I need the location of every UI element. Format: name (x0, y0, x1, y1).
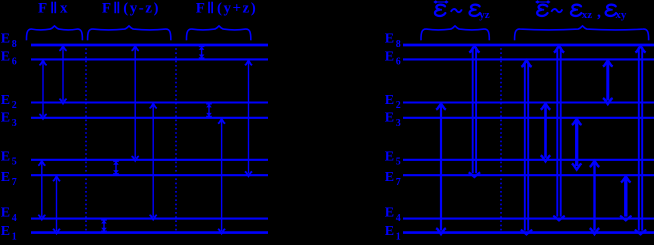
svg-text:,: , (597, 4, 601, 21)
level line E8 (left) (31, 44, 268, 47)
svg-text:xy: xy (615, 9, 627, 21)
transition arrow E2-E5 (E_xz,E_xy) (544, 105, 547, 158)
svg-text:E: E (385, 150, 394, 165)
dotted separator left 1 (85, 44, 87, 234)
level line E2 (right) (403, 101, 654, 103)
transition arrow E4-E1 (F||y-z) (103, 220, 105, 232)
svg-text:E: E (385, 93, 394, 108)
transition arrow E2-E4 (F||y-z) (152, 104, 154, 217)
svg-text:F: F (102, 1, 111, 17)
svg-text:3: 3 (396, 118, 401, 129)
level line E1 (right) (403, 231, 654, 234)
transition arrow E6-E7 (F||y+z) (248, 61, 250, 174)
level line E7 (left) (31, 174, 268, 176)
svg-text:F: F (38, 1, 47, 17)
double transition arrow E8-E4 (E_xz,E_xy) (556, 47, 558, 217)
brace over F||x group (26, 26, 82, 40)
svg-text:E: E (1, 206, 10, 221)
transition arrow E8-E6 (F||y+z) (201, 46, 203, 59)
level line E4 (right) (403, 218, 654, 220)
level line E3 (left) (31, 117, 268, 119)
svg-text:E: E (385, 170, 394, 185)
svg-text:1: 1 (396, 231, 401, 242)
transition arrow E5-E1 (E_xz,E_xy) (593, 162, 595, 231)
level line E8 (right) (403, 44, 654, 47)
svg-text:E: E (1, 170, 10, 185)
svg-text:E: E (1, 224, 10, 239)
transition arrow E2-E1 (E_yz) (440, 105, 442, 231)
svg-text:E: E (385, 111, 394, 126)
svg-text:yz: yz (479, 9, 490, 21)
brace over E_xz,E_xy group (515, 26, 649, 40)
svg-text:2: 2 (12, 100, 17, 111)
dotted separator right (500, 44, 502, 234)
transition arrow E5-E7 (F||y-z) (115, 161, 117, 175)
svg-text:8: 8 (12, 39, 17, 50)
level line E3 (right) (403, 117, 654, 119)
level line E2 (left) (31, 101, 268, 103)
svg-text:E: E (385, 49, 394, 64)
svg-text:E: E (385, 32, 394, 47)
svg-text:E: E (385, 224, 394, 239)
svg-text:(y+z): (y+z) (217, 1, 257, 17)
transition arrow E6-E2 (E_xz,E_xy) (606, 61, 609, 100)
svg-text:1: 1 (12, 231, 17, 242)
double transition arrow E8-E1 (E_xz,E_xy) (638, 47, 640, 231)
svg-text:2: 2 (396, 100, 401, 111)
dotted separator left 2 (175, 44, 177, 234)
svg-text:7: 7 (396, 177, 401, 188)
level line E7 (right) (403, 174, 654, 176)
transition arrow E3-E5 (E_xz,E_xy) (575, 120, 578, 166)
svg-text:5: 5 (396, 157, 401, 168)
brace over E_yz group (421, 26, 489, 40)
transition arrow E5-E4 (F||x) (41, 161, 43, 217)
svg-text:8: 8 (396, 39, 401, 50)
transition arrow E8-E2 (F||x) (62, 47, 64, 102)
brace over F||(y+z) group (186, 26, 250, 40)
svg-text:(y-z): (y-z) (123, 1, 160, 17)
double transition arrow E8-E7 (E_yz) (472, 47, 474, 173)
svg-text:E: E (1, 150, 10, 165)
svg-text:xz: xz (582, 9, 593, 21)
svg-text:F: F (196, 1, 205, 17)
svg-text:7: 7 (12, 177, 17, 188)
svg-text:x: x (60, 1, 68, 17)
svg-text:6: 6 (396, 57, 401, 68)
svg-text:E: E (1, 49, 10, 64)
svg-text:4: 4 (396, 213, 401, 224)
svg-text:E: E (1, 32, 10, 47)
transition arrow E3-E1 (F||y+z) (221, 119, 223, 231)
level line E5 (left) (31, 159, 268, 161)
svg-text:5: 5 (12, 157, 17, 168)
svg-text:4: 4 (12, 213, 17, 224)
title script-E ~ E_xz, E_xy (537, 1, 549, 3)
svg-text:6: 6 (12, 57, 17, 68)
transition arrow E8-E5 (F||y-z) (134, 47, 136, 159)
svg-text:E: E (385, 206, 394, 221)
level line E1 (left) (31, 231, 268, 234)
title script-E ~ E_yz (435, 1, 447, 3)
svg-text:E: E (1, 111, 10, 126)
svg-text:E: E (1, 93, 10, 108)
transition arrow E7-E4 (E_xz,E_xy) (624, 177, 627, 216)
transition arrow E2-E3 (F||y+z) (208, 103, 210, 117)
transition arrow E6-E3 (F||x) (42, 61, 44, 116)
svg-text:3: 3 (12, 118, 17, 129)
level line E4 (left) (31, 218, 268, 220)
double transition arrow E6-E1 (E_xz,E_xy) (524, 61, 526, 230)
brace over F||(y-z) group (88, 26, 171, 40)
level line E6 (left) (31, 58, 268, 60)
level line E5 (right) (403, 159, 654, 161)
level line E6 (right) (403, 58, 654, 60)
transition arrow E7-E1 (F||x) (56, 177, 58, 231)
